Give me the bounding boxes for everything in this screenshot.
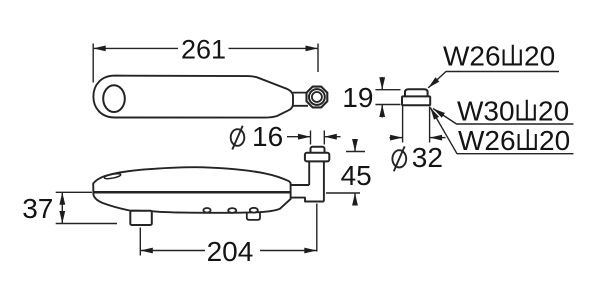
svg-text:204: 204 [207, 236, 254, 267]
svg-text:261: 261 [181, 35, 226, 65]
svg-text:20: 20 [524, 41, 555, 72]
svg-text:20: 20 [539, 125, 570, 156]
svg-text:45: 45 [341, 160, 372, 191]
svg-text:W26: W26 [458, 125, 516, 156]
svg-text:W26: W26 [443, 41, 501, 72]
svg-text:W30: W30 [457, 96, 515, 127]
svg-text:19: 19 [342, 82, 373, 113]
svg-text:37: 37 [22, 193, 53, 224]
svg-text:16: 16 [252, 121, 283, 152]
svg-text:32: 32 [412, 142, 443, 173]
svg-text:20: 20 [538, 96, 569, 127]
